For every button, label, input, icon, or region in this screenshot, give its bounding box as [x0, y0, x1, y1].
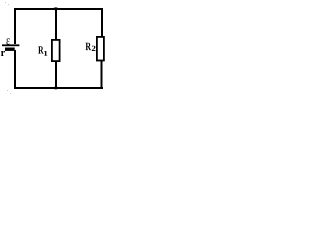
resistor R2 box	[96, 36, 105, 61]
wire: middle branch upper segment (to R1)	[55, 8, 57, 39]
battery cell: long thin plate (positive terminal)	[2, 44, 19, 46]
label epsilon (EMF value)	[6, 38, 9, 44]
label R2 subscript 2	[92, 46, 96, 51]
wire: bottom horizontal bus	[14, 87, 103, 89]
wire: left branch upper segment (to battery top plate)	[14, 8, 16, 44]
label r (internal resistance)	[1, 51, 5, 56]
scan noise speckles	[5, 2, 11, 94]
wire: left branch lower segment (from battery bottom plate)	[14, 50, 16, 89]
resistor R1 box	[51, 39, 61, 62]
label R1 letter R	[38, 46, 43, 53]
wire: middle branch lower segment (from R1)	[55, 62, 57, 89]
node: bottom junction of R1 branch	[53, 87, 58, 90]
wire: top horizontal bus	[14, 8, 103, 10]
node: top junction of R1 branch	[53, 7, 58, 10]
wire: right branch upper segment (to R2)	[101, 8, 103, 36]
label R2 letter R	[86, 43, 92, 50]
wire: right branch lower segment (from R2)	[101, 61, 103, 89]
battery cell: short thick plate (negative terminal)	[5, 48, 15, 51]
label R1 subscript 1	[44, 51, 47, 56]
